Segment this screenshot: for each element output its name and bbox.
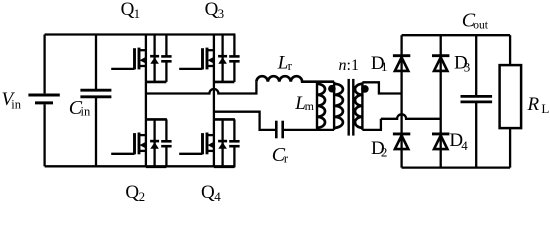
svg-text:Q: Q xyxy=(121,0,135,20)
svg-text:3: 3 xyxy=(218,6,225,21)
svg-text:in: in xyxy=(11,98,21,112)
svg-text:n:1: n:1 xyxy=(339,57,359,74)
svg-text:m: m xyxy=(305,99,315,113)
svg-text:3: 3 xyxy=(464,59,471,74)
svg-text:r: r xyxy=(288,58,293,73)
svg-text:out: out xyxy=(473,19,489,31)
svg-text:R: R xyxy=(527,94,540,115)
svg-text:1: 1 xyxy=(134,6,141,21)
svg-text:in: in xyxy=(81,105,91,119)
svg-text:Q: Q xyxy=(125,182,139,203)
svg-text:4: 4 xyxy=(461,138,468,153)
svg-text:Q: Q xyxy=(201,182,215,203)
svg-text:Q: Q xyxy=(205,0,219,20)
svg-text:r: r xyxy=(284,151,289,166)
svg-text:4: 4 xyxy=(214,189,221,204)
svg-text:2: 2 xyxy=(381,145,388,160)
svg-text:1: 1 xyxy=(381,59,388,74)
svg-text:2: 2 xyxy=(139,189,146,204)
svg-text:L: L xyxy=(541,101,549,116)
